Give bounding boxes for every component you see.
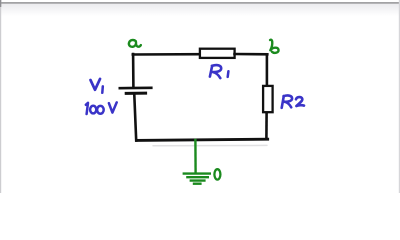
- faint shadow stroke under bottom wire: [153, 144, 267, 146]
- resistor R2 body: [263, 86, 273, 112]
- ground wire vertical: [194, 140, 197, 173]
- battery V1 plate long (+): [120, 87, 152, 90]
- label R1: [210, 65, 221, 78]
- ground node 0 label: [214, 169, 220, 179]
- label V1: [91, 79, 101, 90]
- ground bar 4: [194, 182, 200, 184]
- top chrome line: [0, 2, 400, 4]
- right edge line: [399, 0, 400, 193]
- wire: left vertical lower (battery - to bottom): [134, 95, 136, 141]
- wire: right vertical upper (node b to R2): [266, 54, 269, 85]
- node b label: [270, 40, 278, 53]
- battery V1 plate short (-): [126, 92, 145, 95]
- left edge line: [0, 0, 1, 193]
- resistor R1 body: [200, 49, 235, 58]
- wire: right vertical lower (R2 to bottom): [265, 113, 268, 139]
- wire: bottom horizontal: [137, 139, 268, 140]
- label 100V: [86, 103, 88, 114]
- ground bar 1: [184, 172, 210, 174]
- wire: top left vertical (node a to battery +): [132, 54, 135, 87]
- label R2: [282, 95, 292, 107]
- ground bar 2: [187, 176, 207, 178]
- node a label: [129, 40, 141, 47]
- wire: top horizontal left segment: [133, 53, 200, 56]
- ground bar 3: [191, 179, 205, 181]
- wire: top horizontal right segment: [235, 53, 268, 56]
